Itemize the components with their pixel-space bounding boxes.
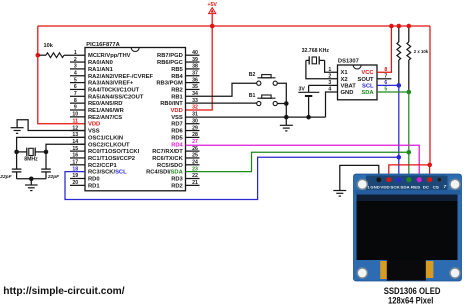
wire +5V right drop to PIC pin32 VDD — [186, 26, 213, 110]
svg-text:29: 29 — [192, 125, 198, 131]
svg-text:MCLR/Vpp/THV: MCLR/Vpp/THV — [88, 53, 131, 59]
svg-text:http://simple-circuit.com/: http://simple-circuit.com/ — [3, 286, 125, 297]
svg-text:RE0/AN5/RD: RE0/AN5/RD — [88, 101, 122, 107]
crystal X2 32.768 KHz — [302, 48, 330, 65]
svg-text:10: 10 — [72, 112, 78, 118]
wire crystal to DS1307 X2 pin2 — [306, 60, 338, 78]
svg-text:2: 2 — [328, 74, 331, 80]
crystal X1 8MHz — [17, 148, 46, 163]
svg-text:32.768 KHz: 32.768 KHz — [302, 48, 330, 54]
junction OLED VDD branch — [427, 163, 432, 168]
svg-text:PIC16F877A: PIC16F877A — [86, 42, 120, 48]
svg-text:1: 1 — [328, 67, 331, 73]
svg-text:RD7: RD7 — [171, 122, 183, 128]
svg-text:3: 3 — [74, 64, 77, 70]
svg-text:RD1: RD1 — [88, 183, 100, 189]
push button B1 — [249, 93, 278, 106]
svg-text:CS: CS — [433, 184, 440, 189]
svg-text:25: 25 — [192, 153, 198, 159]
svg-text:RB2: RB2 — [171, 87, 183, 93]
svg-text:10k: 10k — [44, 43, 54, 49]
svg-text:RB1: RB1 — [171, 94, 183, 100]
svg-text:2 x 10k: 2 x 10k — [414, 49, 429, 54]
junction SDA pull-up — [407, 90, 412, 95]
svg-text:RB3/PGM: RB3/PGM — [156, 81, 183, 87]
wire battery to DS1307 VBAT pin3 — [309, 84, 338, 86]
capacitor C2 22pF — [41, 152, 60, 180]
svg-text:6: 6 — [74, 84, 77, 90]
push button B2 — [249, 72, 278, 85]
svg-text:RA4/T0CKI/C1OUT: RA4/T0CKI/C1OUT — [88, 87, 140, 93]
resistor R2 10k pull-up SCL — [397, 26, 401, 85]
junction B1 common — [284, 101, 289, 106]
PIC pin14 stub — [70, 143, 85, 145]
wire crystal to DS1307 X1 pin1 — [325, 60, 338, 72]
wire +5V stem — [211, 14, 213, 26]
svg-text:40: 40 — [192, 50, 198, 56]
svg-text:VSS: VSS — [171, 115, 183, 121]
svg-text:RD2: RD2 — [171, 183, 183, 189]
svg-text:24: 24 — [192, 160, 198, 166]
svg-text:RC0/T1OSO/T1CKI: RC0/T1OSO/T1CKI — [88, 149, 140, 155]
svg-text:RE1/AN6/WR: RE1/AN6/WR — [88, 108, 125, 114]
junction battery/ground rail — [306, 115, 311, 120]
svg-text:RA1/AN1: RA1/AN1 — [88, 67, 114, 73]
wire SDA to PIC pin23 RC4 — [186, 152, 409, 171]
capacitor C1 22pF — [0, 152, 21, 180]
svg-text:VCC: VCC — [361, 70, 374, 76]
svg-text:RB6/PGC: RB6/PGC — [157, 60, 184, 66]
svg-text:RD5: RD5 — [171, 135, 183, 141]
junction SCL pull-up — [397, 83, 402, 88]
wire PIC pin14 OSC2 to crystal X1 node — [46, 144, 85, 152]
ground symbol below crystal caps — [25, 179, 38, 191]
junction SCL branch — [397, 155, 402, 160]
svg-text:RA5/AN4/SS/C2OUT: RA5/AN4/SS/C2OUT — [88, 94, 144, 100]
OLED flex connector and pads — [380, 260, 433, 281]
DS1307 pin7 SOUT stub — [377, 78, 391, 80]
svg-text:11: 11 — [73, 118, 79, 124]
svg-text:DC: DC — [423, 184, 429, 189]
ground symbol at PIC pin12 VSS — [11, 120, 85, 134]
OLED wire terminals — [376, 177, 432, 182]
svg-text:RA3/AN3/VREF+: RA3/AN3/VREF+ — [88, 81, 134, 87]
svg-text:DS1307: DS1307 — [338, 59, 359, 65]
svg-text:RB4: RB4 — [171, 74, 183, 80]
svg-text:RD3: RD3 — [171, 177, 183, 183]
svg-text:RD4: RD4 — [171, 142, 183, 148]
IC U1 PIC16F877A body — [85, 42, 186, 191]
svg-text:VDD: VDD — [380, 184, 390, 189]
svg-text:SOUT: SOUT — [357, 77, 374, 83]
wire RES PIC pin27 RD4 to OLED RES — [186, 145, 420, 180]
svg-text:RC7/RX/DT: RC7/RX/DT — [152, 149, 183, 155]
svg-text:5: 5 — [74, 77, 77, 83]
junction resistor R1 tap — [36, 53, 41, 58]
OLED screen — [357, 195, 458, 261]
label SSD1306 OLED — [384, 286, 441, 304]
OLED mounting holes — [357, 179, 460, 278]
svg-text:SDA: SDA — [400, 184, 410, 189]
wire SDA vertical to OLED SDA — [408, 92, 410, 180]
wire PIC pin33 RB0 to button B1 — [186, 102, 257, 104]
junction crystal right node — [44, 150, 49, 155]
wire +5V rail — [38, 25, 430, 27]
svg-text:B2: B2 — [249, 72, 256, 78]
wire +5V left drop to MCLR resistor and VDD pin11 — [38, 26, 85, 124]
wire button B1 to common — [277, 103, 286, 105]
wire SCL vertical to OLED SCK — [398, 85, 400, 180]
IC U2 DS1307 body — [338, 59, 378, 100]
svg-text:26: 26 — [192, 146, 198, 152]
junction buttons/ground rail — [284, 115, 289, 120]
svg-text:39: 39 — [192, 57, 198, 63]
wire R1 to PIC pin1 — [64, 54, 85, 56]
svg-text:28: 28 — [192, 132, 198, 138]
svg-text:36: 36 — [192, 77, 198, 83]
wire ground rail to DS1307 GND pin4 — [326, 92, 338, 117]
svg-text:RA2/AN2/VREF-/CVREF: RA2/AN2/VREF-/CVREF — [88, 74, 154, 80]
svg-text:20: 20 — [72, 180, 78, 186]
svg-text:RB7/PGD: RB7/PGD — [157, 53, 183, 59]
PIC pin12 VSS stub — [70, 130, 85, 132]
junction SDA branch — [407, 150, 412, 155]
svg-text:1: 1 — [74, 50, 77, 56]
junction R3 rail — [407, 24, 412, 29]
svg-text:OSC1/CLKIN: OSC1/CLKIN — [88, 135, 123, 141]
wire SCL to PIC pin18 RC3 — [65, 157, 399, 199]
svg-text:37: 37 — [192, 70, 198, 76]
battery BT1 3V — [298, 85, 319, 117]
svg-text:22pF: 22pF — [0, 174, 13, 180]
junction crystal left node — [14, 150, 19, 155]
OLED pin pads — [376, 177, 441, 182]
wire DS1307 VCC pin8 to +5V rail — [377, 26, 391, 72]
svg-text:SCK: SCK — [390, 184, 400, 189]
svg-text:4: 4 — [328, 87, 331, 93]
DS1307 left pin numbers — [328, 67, 356, 96]
svg-text:RC2/CCP1: RC2/CCP1 — [88, 163, 117, 169]
svg-text:22: 22 — [192, 173, 198, 179]
svg-text:VDD: VDD — [88, 122, 100, 128]
svg-text:VDD: VDD — [171, 108, 183, 114]
wire +5V right drop to OLED DC — [429, 26, 431, 180]
svg-text:RC4/SDI/SDA: RC4/SDI/SDA — [146, 170, 184, 176]
svg-text:3V: 3V — [298, 86, 305, 92]
svg-text:RC3/SCK/SCL: RC3/SCK/SCL — [88, 170, 127, 176]
svg-text:RB5: RB5 — [171, 67, 183, 73]
wire buttons common to ground rail — [277, 83, 286, 117]
svg-text:16: 16 — [72, 153, 78, 159]
wire capacitor commons — [17, 178, 46, 180]
svg-text:RC6/TX/CK: RC6/TX/CK — [152, 156, 183, 162]
PIC pin18 SCL stub (blue) — [70, 171, 85, 173]
svg-text:9: 9 — [74, 105, 77, 111]
svg-text:GND: GND — [341, 90, 354, 96]
svg-text:35: 35 — [192, 84, 198, 90]
svg-text:19: 19 — [72, 173, 78, 179]
svg-text:2: 2 — [74, 57, 77, 63]
svg-text:32: 32 — [192, 105, 198, 111]
svg-text:15: 15 — [72, 146, 78, 152]
power +5V symbol — [208, 2, 218, 14]
resistor R3 10k pull-up SDA — [407, 26, 411, 92]
junction VCC rail — [389, 24, 394, 29]
svg-text:7: 7 — [74, 91, 77, 97]
ground symbol below buttons — [280, 117, 293, 131]
wire PIC pin34 RB1 to button B2 — [186, 83, 257, 96]
svg-text:RD6: RD6 — [171, 129, 183, 135]
svg-text:RD0: RD0 — [88, 177, 100, 183]
svg-text:SCL: SCL — [362, 83, 374, 89]
svg-text:RC5/SDO: RC5/SDO — [157, 163, 183, 169]
svg-text:38: 38 — [192, 64, 198, 70]
OLED pin labels — [368, 184, 447, 190]
svg-text:SDA: SDA — [361, 90, 374, 96]
svg-text:RE2/AN7/CS: RE2/AN7/CS — [88, 115, 122, 121]
svg-text:4: 4 — [74, 70, 77, 76]
svg-text:RES: RES — [411, 184, 421, 189]
svg-text:17: 17 — [72, 160, 78, 166]
PIC pins 40-21 stubs and numbers (right) — [186, 50, 200, 186]
junction capacitor ground node — [29, 177, 34, 182]
module SSD1306 OLED board — [354, 174, 462, 281]
svg-text:8MHz: 8MHz — [24, 157, 38, 163]
svg-text:3: 3 — [328, 80, 331, 86]
svg-text:8: 8 — [74, 98, 77, 104]
svg-text:OSC2/CLKOUT: OSC2/CLKOUT — [88, 142, 130, 148]
wire SDA DS1307 pin5 to pull-up node — [377, 91, 409, 93]
svg-text:GND: GND — [370, 184, 379, 189]
PIC right pin labels — [146, 53, 184, 189]
svg-text:27: 27 — [192, 139, 198, 145]
DS1307 right pin labels and numbers — [357, 67, 387, 96]
svg-text:7: 7 — [443, 184, 446, 190]
svg-text:VSS: VSS — [88, 129, 100, 135]
svg-text:B1: B1 — [249, 93, 256, 99]
svg-text:VBAT: VBAT — [341, 83, 357, 89]
wire branch to OLED VDD — [389, 165, 430, 180]
ground symbol near OLED — [333, 165, 379, 196]
svg-text:RA0/AN0: RA0/AN0 — [88, 60, 113, 66]
svg-text:128x64 Pixel: 128x64 Pixel — [388, 294, 433, 304]
svg-text:RC1/T1OSI/CCP2: RC1/T1OSI/CCP2 — [88, 156, 135, 162]
junction R2 rail — [397, 24, 402, 29]
wire VSS pin31 ground rail — [186, 116, 326, 118]
svg-text:22pF: 22pF — [47, 174, 60, 180]
wire SCL DS1307 pin6 to pull-up node — [377, 84, 399, 86]
svg-text:X1: X1 — [341, 70, 349, 76]
svg-text:X2: X2 — [341, 77, 348, 83]
PIC left pin labels — [88, 53, 154, 189]
svg-text:21: 21 — [192, 180, 198, 186]
PIC pin13 stub — [70, 136, 85, 138]
svg-text:RB0/INT: RB0/INT — [160, 101, 183, 107]
wire PIC pin13 OSC1 to crystal X1 node — [17, 137, 85, 152]
svg-text:30: 30 — [192, 118, 198, 124]
junction +5V stem/rail — [210, 24, 215, 29]
PIC pins 1-20 stubs and numbers (left) — [70, 50, 85, 186]
resistor R1 10k — [39, 43, 64, 57]
